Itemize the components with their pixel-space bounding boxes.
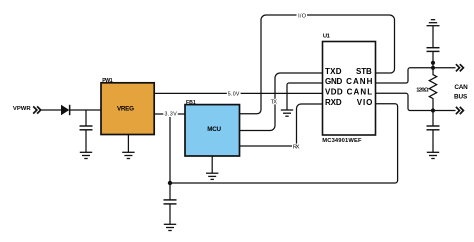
wire VPWR input [41,109,62,111]
diode D1 (series reverse-protection) [61,105,70,115]
svg-text:MCU: MCU [207,126,221,133]
wire 5.0V net [154,92,322,94]
svg-text:TXD: TXD [325,67,342,76]
net label I/O [297,12,308,19]
svg-text:CAN: CAN [454,84,468,91]
junction dot CANH stem [431,61,435,65]
port CANL chevron [456,107,464,114]
wire bottom right cap to ground [432,130,434,153]
wire MCU ground stem [211,156,213,173]
svg-text:VDD: VDD [325,87,343,96]
net label 5.0V [227,91,241,97]
voltage regulator VREG box [101,83,154,135]
MCU box [185,105,240,156]
CAN transceiver U1 MC34901WEF box [323,42,376,136]
wire 3.3V net [154,113,185,115]
wire CANL: pin to bus [376,93,456,110]
svg-text:CANH: CANH [346,77,373,86]
wire diode to VREG [70,109,101,111]
inverted ground top right [427,20,440,26]
port CANH chevron [456,64,464,71]
svg-text:VIO: VIO [357,98,373,107]
wire input cap stem top [85,110,87,126]
svg-text:VREG: VREG [117,105,134,112]
svg-text:PW1: PW1 [102,78,113,84]
svg-text:FB1: FB1 [186,100,196,106]
port VPWR chevron [33,106,41,113]
net label 3.3V [163,111,178,117]
wire top cap stem to inverted ground [432,26,434,48]
svg-text:MC34901WEF: MC34901WEF [322,138,362,144]
svg-text:5.0V: 5.0V [228,91,240,97]
wire RX net: MCU pin to RXD [240,104,323,146]
svg-text:120Ω: 120Ω [416,88,429,94]
ground under input cap [80,152,92,158]
capacitor C 3.3V plates [164,200,177,204]
junction dot 3.3V/VIO node [168,181,172,185]
junction dot CANH bus [431,66,435,70]
svg-text:3.3V: 3.3V [165,112,178,118]
wire VREG ground stem [127,135,129,153]
wire U1 GND pin to ground [287,83,323,110]
wire bottom cap stem top [169,183,171,200]
net label RX [292,144,301,149]
svg-text:VPWR: VPWR [13,106,31,112]
wire 3.3V vertical [169,114,171,183]
svg-text:RXD: RXD [325,98,342,107]
wire top cap to CANH bus [432,51,434,67]
capacitor C top-right plates [427,48,440,52]
ground under 3.3V cap [164,224,176,230]
wire TX net: MCU pin to TXD [240,73,323,131]
wire I/O net: MCU pin to STB [240,15,395,114]
junction dot CANL bus [431,108,435,112]
svg-text:U1: U1 [323,33,331,39]
svg-text:RX: RX [293,144,300,150]
svg-text:GND: GND [325,77,343,86]
capacitor C_in plates [80,126,93,130]
wire bottom cap stem bottom [169,204,171,224]
ground U1 GND pin [281,110,293,116]
wire CANL bus to bottom cap [432,111,434,127]
svg-text:CANL: CANL [347,87,373,96]
svg-text:I/O: I/O [298,13,306,19]
svg-text:STB: STB [356,67,372,76]
ground under VREG [122,152,134,158]
capacitor C bottom-right plates [427,126,440,130]
ground under MCU [206,173,218,179]
wire CANH: pin to bus [376,68,456,83]
wire input cap stem bottom [85,130,87,152]
ground bottom right [427,152,439,158]
resistor R 120ohm zigzag [429,68,436,111]
net label TX [270,99,278,105]
svg-text:BUS: BUS [454,93,468,100]
svg-text:TX: TX [271,100,277,106]
wire VIO return (bottom horizontal + vertical to VIO pin) [170,104,398,183]
